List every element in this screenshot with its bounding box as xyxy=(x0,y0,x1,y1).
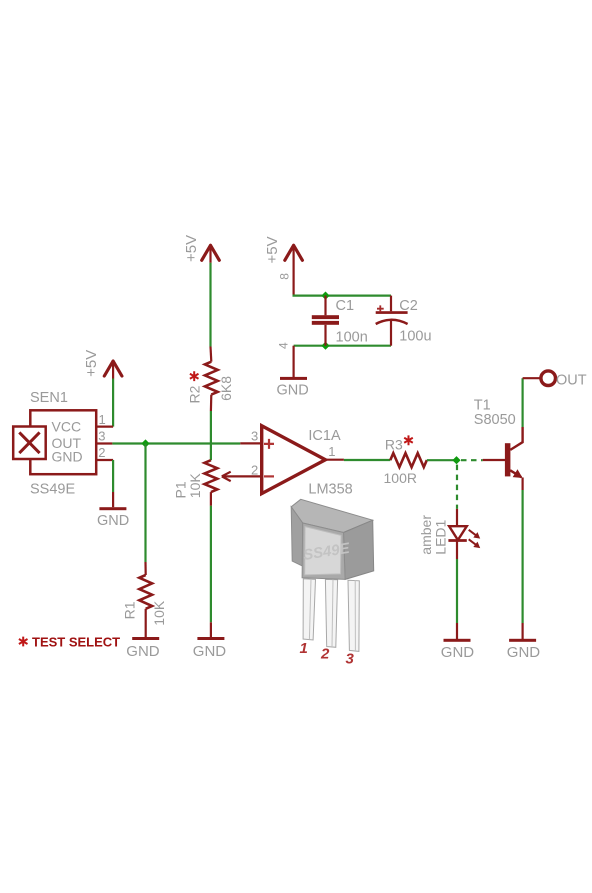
dashed wire junction to base xyxy=(461,459,483,461)
svg-text:10K: 10K xyxy=(151,600,167,626)
wire +5V to R2 xyxy=(209,263,211,347)
svg-text:4: 4 xyxy=(277,342,291,349)
svg-text:C2: C2 xyxy=(399,298,418,314)
svg-text:LED1: LED1 xyxy=(432,519,448,554)
svg-text:2: 2 xyxy=(98,445,105,460)
transistor T1 xyxy=(474,398,523,490)
sensor pin 3 stub xyxy=(96,442,112,444)
LED1 xyxy=(418,509,480,559)
svg-text:S8050: S8050 xyxy=(474,412,516,428)
svg-text:R2: R2 xyxy=(187,385,203,403)
wire opamp out to R3 xyxy=(344,459,390,461)
svg-text:1: 1 xyxy=(300,640,308,657)
svg-text:100R: 100R xyxy=(384,470,417,486)
svg-text:100u: 100u xyxy=(399,328,431,344)
asterisk for R2 xyxy=(190,371,199,381)
svg-text:C1: C1 xyxy=(336,298,355,314)
svg-text:VCC: VCC xyxy=(52,419,82,435)
svg-text:1: 1 xyxy=(328,444,335,459)
capacitor C1 xyxy=(312,296,368,346)
resistor R2 xyxy=(187,347,235,412)
svg-text:+5V: +5V xyxy=(264,236,281,263)
note TEST SELECT xyxy=(19,635,120,650)
P1 wiper arrow to IC pin 2 xyxy=(222,472,262,481)
capacitor C2 (polarized) xyxy=(376,296,432,346)
package lead 1 xyxy=(303,579,315,640)
svg-text:3: 3 xyxy=(98,429,105,444)
ground symbol (T1 emitter) xyxy=(507,639,541,661)
ground symbol (R1) xyxy=(126,637,160,660)
svg-text:GND: GND xyxy=(441,644,475,661)
ground symbol (LED) xyxy=(441,639,475,661)
sensor pin 1 stub xyxy=(96,426,113,428)
op-amp IC1A xyxy=(262,426,353,498)
wire +5V to sensor pin1 xyxy=(112,379,114,427)
svg-text:LM358: LM358 xyxy=(308,482,352,498)
svg-text:8: 8 xyxy=(278,273,292,280)
pin 8 wire of IC1 xyxy=(293,262,295,296)
svg-text:IC1A: IC1A xyxy=(308,428,341,444)
svg-text:GND: GND xyxy=(126,643,160,660)
sensor pin 2 stub xyxy=(96,459,113,461)
wire R3 to junction xyxy=(427,459,457,461)
pin 4 wire of IC1 to ground xyxy=(293,346,295,377)
svg-text:6K8: 6K8 xyxy=(218,376,234,401)
wire junction down to R1 xyxy=(144,444,146,563)
svg-text:+5V: +5V xyxy=(83,350,100,377)
power symbol +5V (IC pin 8) xyxy=(264,236,302,263)
svg-text:GND: GND xyxy=(97,513,129,529)
svg-text:R1: R1 xyxy=(122,601,138,619)
package lead 3 xyxy=(348,580,359,651)
svg-text:3: 3 xyxy=(346,651,355,668)
svg-text:+5V: +5V xyxy=(183,235,200,262)
terminal OUT pad xyxy=(523,371,587,388)
wire emitter to ground xyxy=(521,490,523,623)
potentiometer P1 xyxy=(173,460,218,506)
svg-text:GND: GND xyxy=(507,644,541,661)
svg-text:TEST SELECT: TEST SELECT xyxy=(32,635,120,650)
ground symbol (sensor) xyxy=(97,507,129,529)
node junction bottom C1 xyxy=(321,342,329,350)
dashed wire junction to LED xyxy=(456,465,458,509)
wire VCC rail (top, to C1 C2) xyxy=(293,295,392,297)
node junction base/LED xyxy=(452,456,460,464)
package lead 2 xyxy=(325,579,337,647)
wire sensor pin2 to ground xyxy=(112,460,114,492)
ground symbol (P1) xyxy=(193,637,227,660)
wire GND rail (bottom, C1 to C2) xyxy=(294,345,391,347)
power symbol +5V (sensor) xyxy=(83,350,122,379)
svg-text:SEN1: SEN1 xyxy=(30,390,68,406)
node junction top C1 xyxy=(321,291,329,299)
svg-text:R3: R3 xyxy=(385,437,403,453)
sensor crystal X symbol xyxy=(13,427,46,460)
wire P1 to ground xyxy=(210,506,212,623)
resistor R1 xyxy=(122,562,168,637)
package drawing SS49E body xyxy=(291,499,374,579)
ground symbol (IC pin4) xyxy=(277,377,309,399)
wire R2 to P1 xyxy=(210,411,212,460)
svg-text:1: 1 xyxy=(99,412,106,427)
svg-text:100n: 100n xyxy=(336,330,368,346)
power symbol +5V (R2) xyxy=(183,235,219,263)
svg-text:10K: 10K xyxy=(187,473,203,499)
wire OUT net (sensor to opamp) xyxy=(112,442,240,444)
svg-text:3: 3 xyxy=(251,428,258,443)
svg-text:SS49E: SS49E xyxy=(30,482,75,498)
svg-text:OUT: OUT xyxy=(556,372,587,388)
svg-text:2: 2 xyxy=(251,463,258,478)
asterisk for R3 xyxy=(404,435,413,445)
sensor SEN1 box xyxy=(30,390,96,498)
svg-text:2: 2 xyxy=(320,646,330,663)
svg-text:GND: GND xyxy=(52,449,83,465)
wire LED to ground xyxy=(456,559,458,623)
node junction OUT/R1 xyxy=(141,439,149,447)
svg-text:GND: GND xyxy=(277,383,309,399)
wire collector to OUT xyxy=(521,378,523,427)
resistor R3 xyxy=(384,437,427,486)
opamp pin 3 stub xyxy=(240,442,261,444)
opamp output stub pin 1 xyxy=(325,459,344,461)
svg-text:GND: GND xyxy=(193,643,227,660)
